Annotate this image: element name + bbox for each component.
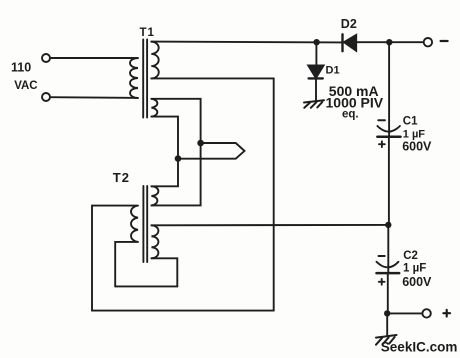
wire C2 bottom to output node xyxy=(387,273,389,313)
wire C1 top lead xyxy=(388,45,390,136)
wire top rail from T1 to D2 xyxy=(151,41,342,44)
svg-text:T2: T2 xyxy=(113,170,130,185)
wire T2 primary bottom lead xyxy=(115,242,136,287)
wire T1 lower secondary bottom lead xyxy=(151,117,178,156)
svg-text:D2: D2 xyxy=(341,17,357,31)
label minus output xyxy=(441,40,448,42)
label plus output xyxy=(443,310,450,317)
capacitor C1 xyxy=(377,116,432,154)
svg-text:eq.: eq. xyxy=(342,109,359,121)
svg-text:VAC: VAC xyxy=(14,80,37,92)
svg-text:110: 110 xyxy=(11,61,31,75)
wire D1 cathode to ground xyxy=(315,78,317,100)
transformer T2 xyxy=(113,170,159,262)
transformer T1 secondary lower winding xyxy=(151,99,157,117)
arrow connector flag xyxy=(181,143,244,159)
wire right loop vertical xyxy=(273,78,275,310)
junction dot midpoint C1 C2 xyxy=(385,222,391,228)
terminal positive output xyxy=(422,309,430,317)
label minus C1 xyxy=(378,119,385,121)
junction dot D1 tap on top rail xyxy=(313,39,319,45)
wire left loop vertical xyxy=(91,206,93,311)
terminal input top (110 VAC) xyxy=(42,54,50,62)
wire input bottom to T1 primary xyxy=(50,96,137,99)
label minus C2 xyxy=(379,255,385,257)
wire inner loop bottom xyxy=(115,285,177,287)
transformer T1 primary winding xyxy=(130,58,138,98)
ground at output xyxy=(376,335,397,345)
wire D2 to negative output terminal xyxy=(356,41,424,43)
label plus C1 xyxy=(379,141,385,147)
svg-text:1 µF: 1 µF xyxy=(403,262,426,274)
svg-text:D1: D1 xyxy=(326,65,340,77)
wire T1 top secondary bottom lead xyxy=(151,77,273,79)
transformer T1 core xyxy=(143,40,147,118)
wire node B down to T2 upper right winding xyxy=(151,162,178,186)
node B junction dot xyxy=(175,155,182,162)
wire C1 bottom to midpoint node xyxy=(388,137,390,225)
wire midpoint to C2 xyxy=(387,228,389,272)
svg-text:C1: C1 xyxy=(403,116,418,128)
capacitor C2 xyxy=(377,250,433,289)
wire node A down to T2 upper right winding xyxy=(151,146,200,205)
terminal negative output xyxy=(424,38,432,46)
ground at D1 xyxy=(304,100,324,108)
wire output node to positive terminal xyxy=(387,312,422,314)
transformer T1 xyxy=(130,27,159,118)
wire D1 anode xyxy=(315,42,317,65)
svg-text:T1: T1 xyxy=(140,27,155,39)
svg-text:C2: C2 xyxy=(403,250,418,262)
wire inner loop right vertical xyxy=(151,258,177,286)
wire output node to ground xyxy=(386,317,388,336)
svg-text:SeekIC.com: SeekIC.com xyxy=(381,340,458,355)
transformer T2 core xyxy=(143,186,147,262)
diode D2 xyxy=(341,17,357,51)
diode D1 xyxy=(308,65,339,79)
wire T2 primary top lead xyxy=(92,205,137,207)
wire T1 lower secondary top lead xyxy=(151,99,200,140)
transformer T1 secondary top winding xyxy=(151,42,158,79)
transformer T2 lower right winding xyxy=(151,225,158,258)
wire bottom loop horizontal xyxy=(92,310,274,312)
wire T2 secondary rail to midpoint xyxy=(151,224,388,226)
node A junction dot xyxy=(197,140,204,147)
label plus C2 xyxy=(379,279,385,285)
junction dot C1 top node xyxy=(386,39,392,45)
transformer T2 upper right winding xyxy=(151,186,158,205)
transformer T2 primary winding xyxy=(131,206,138,242)
wire input top to T1 primary xyxy=(50,57,137,59)
terminal input bottom (110 VAC) xyxy=(42,93,50,101)
svg-text:600V: 600V xyxy=(402,140,432,154)
junction dot positive output node xyxy=(384,310,390,316)
svg-text:600V: 600V xyxy=(402,275,432,289)
